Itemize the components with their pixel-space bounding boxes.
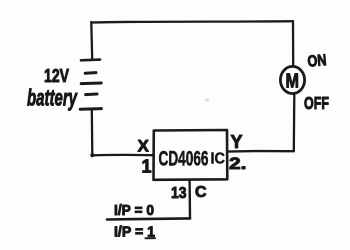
svg-text:2.: 2. [229, 154, 247, 173]
svg-text:X: X [138, 137, 150, 156]
battery B1 12V [80, 60, 101, 110]
label pin Y [231, 132, 243, 152]
label ON [307, 52, 327, 71]
label 13 [171, 185, 187, 202]
motor M1 [280, 66, 304, 93]
svg-text:M: M [286, 71, 300, 93]
svg-text:CD4066: CD4066 [159, 147, 209, 171]
wire right vertical (motor top to top wire) [292, 21, 295, 66]
label I/P = 0 [114, 202, 154, 219]
label I/P = 1 [114, 224, 155, 241]
wire pin 13 (IC C pin down) [188, 180, 191, 219]
wire Y (IC pin 2 to motor) [228, 150, 294, 153]
label M [286, 71, 300, 93]
svg-text:OFF: OFF [304, 93, 329, 113]
svg-text:13: 13 [171, 185, 187, 202]
label pin 1 [142, 157, 152, 177]
svg-text:Y: Y [231, 132, 243, 152]
IC U1 CD4066 box [154, 130, 228, 180]
svg-text:1: 1 [142, 157, 152, 177]
svg-text:ON: ON [307, 52, 327, 71]
svg-text:IC: IC [211, 151, 226, 168]
label CD4066 [159, 147, 209, 171]
label pin X [138, 137, 150, 156]
svg-text:C: C [195, 184, 207, 201]
wire right vertical (Y wire up to motor bottom) [293, 95, 296, 151]
label OFF [304, 93, 329, 113]
svg-text:battery: battery [27, 85, 78, 111]
wire left vertical (battery - down) [91, 109, 94, 155]
label 12V [44, 66, 69, 86]
wire top horizontal (battery + to motor) [92, 21, 294, 22]
wire left vertical (top wire to battery +) [90, 22, 93, 60]
label IC [211, 151, 226, 168]
wire control input line [107, 218, 190, 219]
svg-text:12V: 12V [44, 66, 69, 86]
label C [195, 184, 207, 201]
wire X (battery to IC pin 1) [92, 154, 153, 157]
label battery [27, 85, 78, 111]
svg-text:I/P = 0: I/P = 0 [114, 202, 154, 219]
underline under 1 [146, 237, 156, 239]
label pin 2 [229, 154, 247, 173]
junction node (battery to X wire corner) [90, 153, 94, 157]
